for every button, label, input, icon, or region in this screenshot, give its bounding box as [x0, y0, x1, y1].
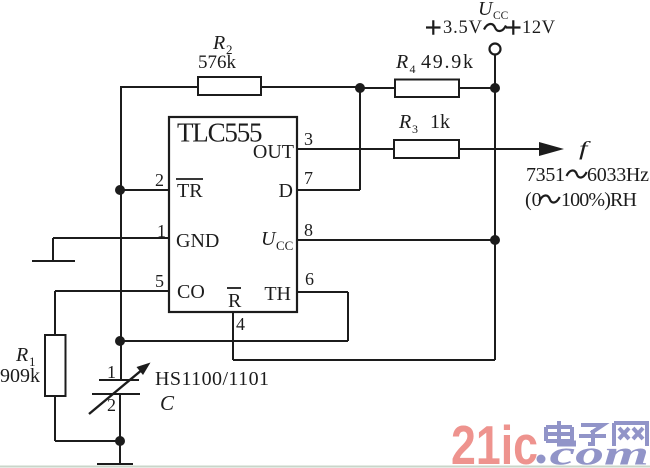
- svg-text:2: 2: [155, 170, 164, 190]
- svg-text:GND: GND: [176, 230, 219, 252]
- svg-text:7: 7: [304, 168, 313, 188]
- svg-text:3.5V: 3.5V: [443, 18, 483, 38]
- svg-text:U: U: [261, 228, 277, 250]
- svg-text:5: 5: [155, 271, 164, 291]
- svg-text:CO: CO: [177, 281, 205, 303]
- svg-text:8: 8: [304, 220, 313, 240]
- svg-text:TLC555: TLC555: [177, 118, 262, 148]
- svg-text:3: 3: [304, 129, 313, 149]
- svg-text:U: U: [478, 0, 494, 20]
- svg-text:R: R: [15, 344, 28, 366]
- svg-text:D: D: [279, 180, 293, 202]
- svg-text:6033Hz: 6033Hz: [587, 164, 649, 186]
- svg-text:TH: TH: [264, 283, 291, 305]
- svg-text:6: 6: [305, 269, 314, 289]
- svg-text:1k: 1k: [430, 111, 450, 133]
- svg-text:4: 4: [410, 62, 416, 76]
- svg-text:1: 1: [107, 362, 116, 382]
- svg-text:21ic: 21ic: [451, 415, 538, 468]
- svg-text:49.9k: 49.9k: [421, 51, 473, 73]
- svg-text:R: R: [395, 51, 408, 73]
- svg-text:909k: 909k: [0, 365, 40, 387]
- svg-text:3: 3: [412, 122, 418, 136]
- svg-text:7351: 7351: [526, 164, 565, 186]
- svg-text:OUT: OUT: [253, 141, 294, 163]
- svg-text:576k: 576k: [198, 52, 237, 73]
- svg-text:TR: TR: [177, 180, 203, 202]
- svg-text:CC: CC: [276, 238, 293, 253]
- svg-text:R: R: [228, 290, 242, 312]
- svg-text:R: R: [398, 111, 411, 133]
- svg-text:12V: 12V: [522, 18, 556, 38]
- svg-text:R: R: [212, 32, 225, 54]
- svg-text:com: com: [550, 435, 649, 468]
- svg-text:2: 2: [107, 395, 116, 415]
- svg-text:HS1100/1101: HS1100/1101: [155, 368, 269, 390]
- svg-text:1: 1: [157, 221, 166, 241]
- svg-text:CC: CC: [493, 10, 509, 22]
- svg-text:100%)RH: 100%)RH: [561, 189, 637, 211]
- svg-text:C: C: [160, 391, 175, 415]
- svg-text:4: 4: [236, 314, 245, 334]
